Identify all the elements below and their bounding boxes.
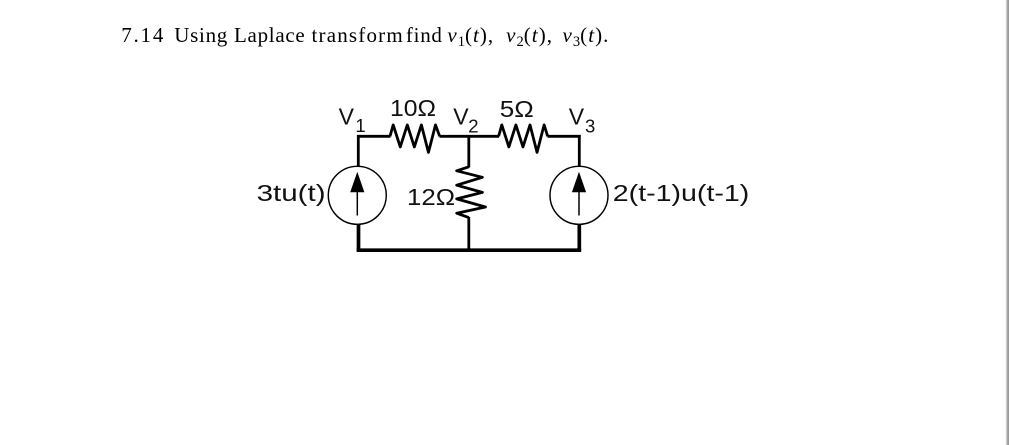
svg-text:3: 3 [585,116,595,137]
svg-text:12Ω: 12Ω [407,184,455,210]
svg-text:V: V [453,104,469,130]
svg-text:V: V [569,104,585,130]
svg-text:1: 1 [355,115,365,136]
svg-text:3tu(t): 3tu(t) [257,180,326,206]
svg-text:V: V [339,104,355,130]
svg-text:5Ω: 5Ω [500,96,534,122]
svg-text:10Ω: 10Ω [390,95,436,121]
svg-text:2: 2 [468,116,478,137]
svg-text:2(t-1)u(t-1): 2(t-1)u(t-1) [613,180,750,206]
